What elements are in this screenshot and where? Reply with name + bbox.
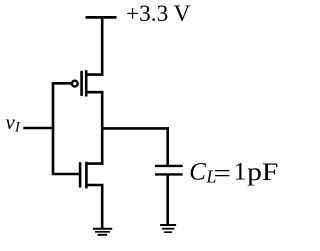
svg-text:+3.3 V: +3.3 V [126, 1, 191, 27]
svg-text:pF: pF [247, 159, 278, 186]
svg-text:=: = [214, 160, 231, 188]
label CL = 1 pF [189, 159, 278, 188]
svg-text:C: C [189, 159, 206, 186]
capacitor CL bottom plate [155, 173, 183, 175]
wire input vI [23, 127, 54, 130]
transistor Q2 NMOS channel bar [85, 162, 88, 189]
supply rail VDD bar [86, 16, 117, 19]
wire PMOS drain stub [86, 91, 104, 94]
transistor Q1 PMOS gate bubble [72, 81, 78, 87]
wire capacitor to ground [166, 174, 169, 225]
svg-text:vI: vI [6, 110, 21, 136]
wire PMOS gate to input line [53, 83, 80, 174]
wire output node to capacitor [101, 128, 168, 165]
ground symbol (NMOS source) [93, 229, 112, 235]
capacitor CL top plate [155, 165, 183, 167]
ground symbol (capacitor) [160, 225, 176, 232]
transistor Q1 PMOS channel bar [85, 70, 88, 96]
transistor Q1 PMOS gate bar [80, 71, 83, 96]
svg-text:1: 1 [234, 159, 247, 186]
wire NMOS drain stub [86, 162, 104, 165]
wire NMOS source to ground [86, 185, 103, 229]
wire VDD to PMOS source [86, 17, 103, 74]
wire drain line PMOS to NMOS (output node) [101, 91, 104, 165]
transistor Q2 NMOS gate bar [79, 162, 82, 187]
